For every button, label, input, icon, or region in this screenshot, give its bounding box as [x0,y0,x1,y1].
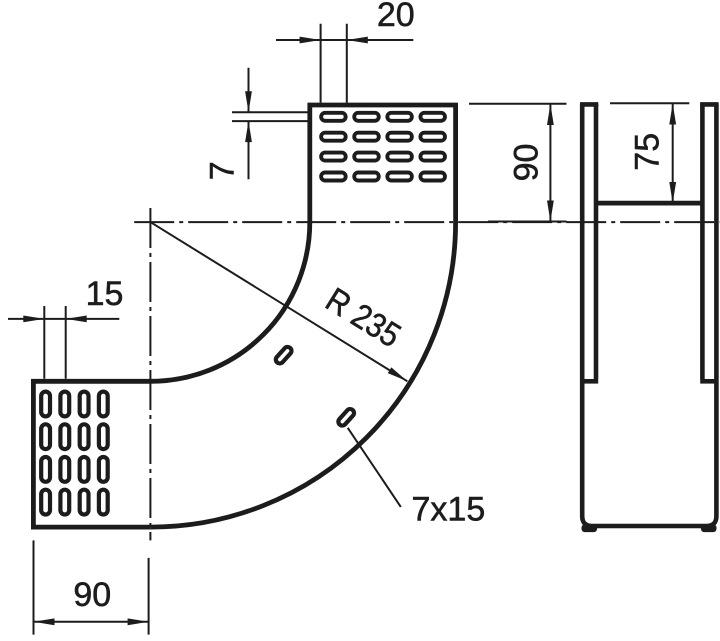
dimension 20: extension lines [321,24,347,103]
svg-text:7: 7 [204,161,242,180]
dimension 90 bottom: dimension line [34,621,149,623]
dimension 90 bottom: extension lines [34,540,149,634]
svg-text:7x15: 7x15 [412,491,486,529]
side view: left wall inner line foot [583,379,598,384]
radius R235 line [151,222,408,381]
bend slot 1 (7x15 oblong) [274,345,293,365]
dimension 7: extension lines (slot lip) [232,112,308,121]
side view: right bottom foot [701,525,717,533]
dimension 15: arrows [23,316,86,323]
side view: left wall top cap [580,102,598,107]
side view: right wall inner line foot [700,379,715,384]
dimension 75: arrows [669,104,676,204]
bottom tray arm outline [33,381,150,527]
side view: left bottom foot [582,525,598,533]
dimension 90 right: dimension line [549,104,551,222]
svg-text:90: 90 [508,144,546,182]
svg-text:R 235: R 235 [319,281,407,355]
centerline horizontal (bend axis) [134,221,719,223]
dimension 15: dimension line [8,318,119,320]
top tray arm: left edge + inner arc R159 [151,103,310,381]
radius R235 arrow [388,367,408,381]
side view: outer profile with rounded bottom [582,104,716,526]
svg-text:75: 75 [629,133,667,171]
dimension 7: dimension line [248,68,250,180]
side view: tray bottom line [596,201,702,206]
dimension 90 right: extension lines [469,104,567,222]
top tray arm: top edge [308,103,458,108]
dimension 75: dimension line [672,103,674,203]
top tray arm: right edge + outer arc R305 [151,103,456,527]
leader line for 7x15 slot [348,428,401,507]
dimension 20: arrows [300,37,368,44]
dimension 90 bottom: arrows [34,618,149,625]
dimension 75: extension line [610,102,689,104]
centerline vertical (bend axis) [149,208,151,540]
dimension 20: dimension line [276,39,413,41]
dimension 15: extension lines [44,306,65,379]
dimension 90 right: arrows [547,104,554,222]
svg-text:20: 20 [377,0,415,34]
perforation slots, bottom arm (4x4 vertical stadiums) [41,392,108,515]
side view: right wall top cap [700,102,719,107]
side view: left wall inner line [594,104,599,379]
dimension 7: arrows [245,91,252,142]
svg-text:15: 15 [86,275,124,313]
bend slot 2 (7x15 oblong) [337,407,356,427]
perforation slots, top arm (4x4 horizontal stadiums) [321,113,445,181]
side view: right wall inner line [700,104,705,379]
svg-text:90: 90 [73,576,111,614]
